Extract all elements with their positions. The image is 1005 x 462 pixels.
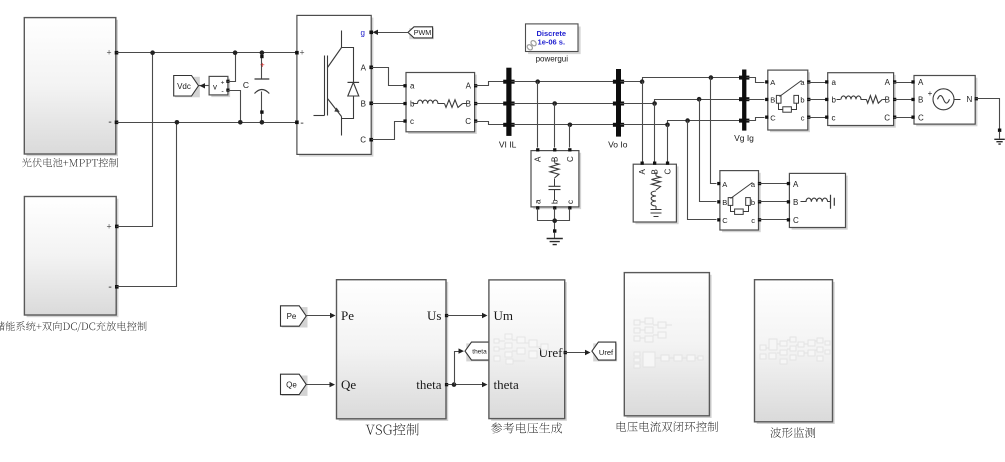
- from tag Qe: [282, 376, 308, 396]
- svg-text:Discrete: Discrete: [536, 29, 566, 38]
- wire: phase C Vo to Vg: [621, 121, 743, 125]
- wire: breaker2 c to LC C: [759, 219, 788, 221]
- svg-text:A: A: [918, 78, 924, 87]
- wire: drop to breaker2 B: [700, 100, 717, 202]
- wire: Pe tag to VSG: [307, 315, 333, 317]
- svg-text:A: A: [534, 156, 543, 162]
- label: waveform monitor: [771, 427, 816, 438]
- wire: DC negative rail: [117, 122, 297, 124]
- three-phase breaker 2 block: [722, 173, 761, 232]
- three-phase programmable source block: [916, 78, 977, 127]
- svg-text:Pe: Pe: [287, 312, 297, 321]
- svg-text:C: C: [663, 169, 672, 175]
- wire: drop to filter A: [537, 82, 539, 148]
- wire: drop to load B: [654, 104, 656, 162]
- junction filter C: [568, 123, 573, 128]
- powergui link icon: [526, 40, 537, 51]
- faint inner diagram (waveform): [760, 337, 830, 364]
- wire: RL1 C to bus VI IL: [475, 122, 505, 125]
- svg-text:+: +: [221, 80, 225, 87]
- svg-text:v: v: [213, 83, 217, 92]
- svg-text:c: c: [566, 200, 575, 204]
- subsystem block: PV + MPPT control: [27, 20, 119, 156]
- subsystem block: waveform monitor: [757, 282, 835, 424]
- LC icon: [801, 201, 807, 203]
- breaker 1 icon: [776, 95, 781, 103]
- powergui block: [528, 27, 581, 55]
- svg-text:A: A: [793, 180, 799, 189]
- wire: Vg bus A to breaker1 A: [747, 78, 765, 83]
- svg-text:C: C: [566, 156, 575, 162]
- filter icon: R + C vertical: [554, 159, 556, 163]
- svg-text:A: A: [770, 78, 775, 87]
- wire: PWM to gate g: [377, 32, 409, 34]
- junction load B: [652, 101, 657, 106]
- wire: storage + to DC+: [117, 53, 153, 227]
- wire: inverter C to filter c: [372, 122, 404, 140]
- svg-text:a: a: [832, 78, 837, 87]
- junction v-: [238, 120, 243, 125]
- svg-text:b: b: [800, 96, 804, 105]
- wire: drop to filter B: [554, 104, 556, 148]
- svg-text:Vo Io: Vo Io: [608, 140, 628, 150]
- svg-text:VI IL: VI IL: [499, 140, 517, 150]
- junction breaker2 C: [685, 118, 690, 123]
- subsystem block: reference voltage generation: [491, 282, 567, 421]
- faint inner diagram (dual loop): [634, 318, 703, 368]
- junction breaker2 A: [709, 75, 714, 80]
- inverter universal bridge block: [299, 18, 373, 157]
- svg-text:theta: theta: [472, 348, 487, 355]
- svg-text:Pe: Pe: [341, 308, 354, 323]
- wire: storage - to DC-: [117, 123, 177, 287]
- junction v+: [233, 50, 238, 55]
- svg-text:B: B: [722, 198, 727, 207]
- svg-text:A: A: [638, 169, 647, 175]
- svg-text:c: c: [751, 216, 755, 225]
- svg-text:c: c: [410, 117, 414, 126]
- svg-text:A: A: [466, 82, 472, 91]
- svg-text:PWM: PWM: [414, 28, 432, 37]
- three-phase VI measurement bus VI IL: [506, 68, 511, 136]
- label: voltage current dual closed loop control: [617, 421, 718, 432]
- from tag Pe: [282, 307, 308, 327]
- svg-text:c: c: [801, 113, 805, 122]
- wire: phase B Vo to Vg: [621, 100, 743, 104]
- wire: Uref to tag: [565, 352, 589, 354]
- svg-text:theta: theta: [494, 377, 519, 392]
- junction load A: [640, 79, 645, 84]
- label: reference voltage generation: [491, 423, 562, 434]
- svg-text:+: +: [106, 222, 111, 232]
- wire: phase A VI IL to Vo Io: [512, 81, 617, 83]
- svg-text:c: c: [832, 113, 836, 122]
- label: VSG control: [366, 423, 419, 435]
- wire: Us to Um: [447, 315, 485, 317]
- three-phase series RL load block: [635, 166, 678, 224]
- series LC branch block: [792, 176, 848, 230]
- capacitor C branch: [261, 53, 263, 79]
- wire: RL2 B to source B: [894, 99, 913, 101]
- wire: phase C VI IL to Vo Io: [512, 124, 617, 126]
- svg-text:-: -: [108, 117, 111, 128]
- wire: breaker2 b to LC B: [759, 201, 788, 203]
- svg-text:Vdc: Vdc: [177, 82, 191, 91]
- svg-text:+: +: [928, 89, 933, 98]
- svg-text:+: +: [299, 48, 304, 58]
- svg-text:+: +: [106, 48, 111, 58]
- faint inner diagram (ref voltage): [494, 334, 548, 364]
- three-phase series RL branch block 1: [408, 75, 477, 134]
- junction filter A: [535, 79, 540, 84]
- RL1 icon: inductor + resistor: [413, 103, 418, 105]
- svg-text:a: a: [534, 199, 543, 204]
- svg-text:B: B: [361, 99, 366, 108]
- subsystem block: voltage current dual loop control: [627, 275, 712, 418]
- wire: breaker2 a to LC A: [759, 183, 788, 185]
- junction DC- / storage: [175, 120, 180, 125]
- wire: Vg bus C to breaker1 C: [747, 118, 765, 121]
- svg-text:Uref: Uref: [599, 348, 614, 357]
- wire: RL1 B to bus VI IL: [475, 103, 505, 105]
- IGBT/diode icon: [314, 115, 325, 117]
- svg-text:C: C: [918, 113, 924, 122]
- label: storage block name: [0, 321, 147, 332]
- svg-text:C: C: [770, 113, 776, 122]
- svg-text:Qe: Qe: [341, 377, 356, 392]
- svg-text:Um: Um: [494, 308, 514, 323]
- wire: v- to DC-: [228, 91, 241, 123]
- three-phase shunt RC filter block: [533, 153, 581, 209]
- goto tag Uref: [593, 343, 617, 361]
- junction filter neutral: [552, 218, 557, 223]
- wire: RL1 A to bus VI IL: [475, 82, 505, 86]
- svg-text:powergui: powergui: [536, 54, 569, 63]
- subsystem block: storage + bidirectional DC/DC control: [27, 199, 119, 318]
- subsystem block: VSG control: [339, 282, 449, 421]
- svg-text:N: N: [967, 95, 973, 104]
- svg-text:B: B: [770, 96, 775, 105]
- source icon: sine circle: [933, 89, 954, 110]
- goto tag theta: [466, 343, 491, 361]
- wire: v+ to DC+: [228, 53, 236, 82]
- wire: filter a,b,c join: [538, 209, 570, 221]
- wire: Vg bus B to breaker1 B: [747, 99, 765, 101]
- svg-text:g: g: [361, 28, 365, 37]
- three-phase VI measurement bus Vo Io: [616, 69, 621, 137]
- svg-text:Us: Us: [427, 308, 441, 323]
- wire: breaker1 a to RL2 a: [808, 82, 826, 84]
- wire: drop to filter C: [569, 125, 571, 148]
- svg-text:b: b: [751, 198, 755, 207]
- load icon: R + L vertical: [655, 172, 657, 176]
- ground symbol (filter): [554, 233, 556, 239]
- junction DC+ / storage: [150, 50, 155, 55]
- label: PV block name: [22, 158, 118, 167]
- svg-text:1e-06 s.: 1e-06 s.: [538, 38, 566, 47]
- wire: voltage meas to Vdc tag: [199, 85, 210, 87]
- wire: RL2 C to source C: [894, 117, 913, 119]
- goto tag Vdc: [175, 77, 200, 98]
- wire: inverter A to filter a: [372, 68, 404, 86]
- svg-text:C: C: [465, 117, 471, 126]
- svg-text:b: b: [832, 96, 837, 105]
- wire: breaker1 c to RL2 c: [808, 117, 826, 119]
- junction cap/DC-: [260, 120, 265, 125]
- breaker 2 icon: [728, 198, 733, 206]
- wire: drop to load A: [642, 82, 644, 162]
- svg-text:B: B: [793, 198, 798, 207]
- wire: drop to breaker2 A: [711, 78, 717, 184]
- svg-text:a: a: [410, 82, 415, 91]
- svg-text:+: +: [260, 61, 265, 70]
- wire: drop to breaker2 C: [688, 121, 717, 220]
- junction filter B: [552, 101, 557, 106]
- svg-text:C: C: [793, 216, 799, 225]
- wire: DC positive rail: [117, 52, 297, 54]
- wire: source N to ground: [976, 99, 1000, 129]
- wire: RL2 A to source A: [894, 82, 913, 84]
- svg-text:A: A: [885, 78, 891, 87]
- svg-text:A: A: [361, 63, 367, 72]
- three-phase VI measurement bus Vg Ig: [742, 70, 746, 131]
- svg-text:-: -: [300, 117, 303, 128]
- junction cap/DC+: [260, 50, 265, 55]
- svg-text:Vg Ig: Vg Ig: [734, 133, 754, 143]
- junction load C: [665, 123, 670, 128]
- voltage measurement block v: [211, 79, 230, 98]
- three-phase breaker 1 block: [770, 72, 810, 132]
- svg-text:C: C: [722, 216, 728, 225]
- junction theta: [452, 382, 457, 387]
- ground symbol (right): [994, 139, 1005, 144]
- svg-text:-: -: [108, 282, 111, 293]
- svg-text:Qe: Qe: [286, 380, 297, 389]
- svg-text:B: B: [918, 96, 923, 105]
- svg-text:C: C: [884, 113, 890, 122]
- wire: drop to load C: [667, 125, 669, 162]
- svg-text:C: C: [243, 80, 249, 90]
- capacitor C plates: [255, 78, 270, 80]
- wire: Qe tag to VSG: [307, 384, 333, 386]
- svg-text:A: A: [722, 180, 727, 189]
- from tag PWM: [409, 28, 434, 39]
- three-phase series RL branch block 2: [830, 75, 896, 128]
- wire: inverter B to filter b: [372, 103, 404, 105]
- wire: theta branch to tag: [455, 352, 462, 385]
- svg-text:B: B: [885, 96, 890, 105]
- RL2 icon: [837, 99, 841, 101]
- wire: phase B VI IL to Vo Io: [512, 103, 617, 105]
- junction breaker2 B: [697, 97, 702, 102]
- svg-text:C: C: [360, 136, 366, 145]
- wire: phase A Vo to Vg: [621, 78, 743, 82]
- svg-text:theta: theta: [416, 377, 441, 392]
- wire: theta out: [447, 384, 485, 386]
- svg-text:B: B: [650, 169, 659, 174]
- wire: breaker1 b to RL2 b: [808, 99, 826, 101]
